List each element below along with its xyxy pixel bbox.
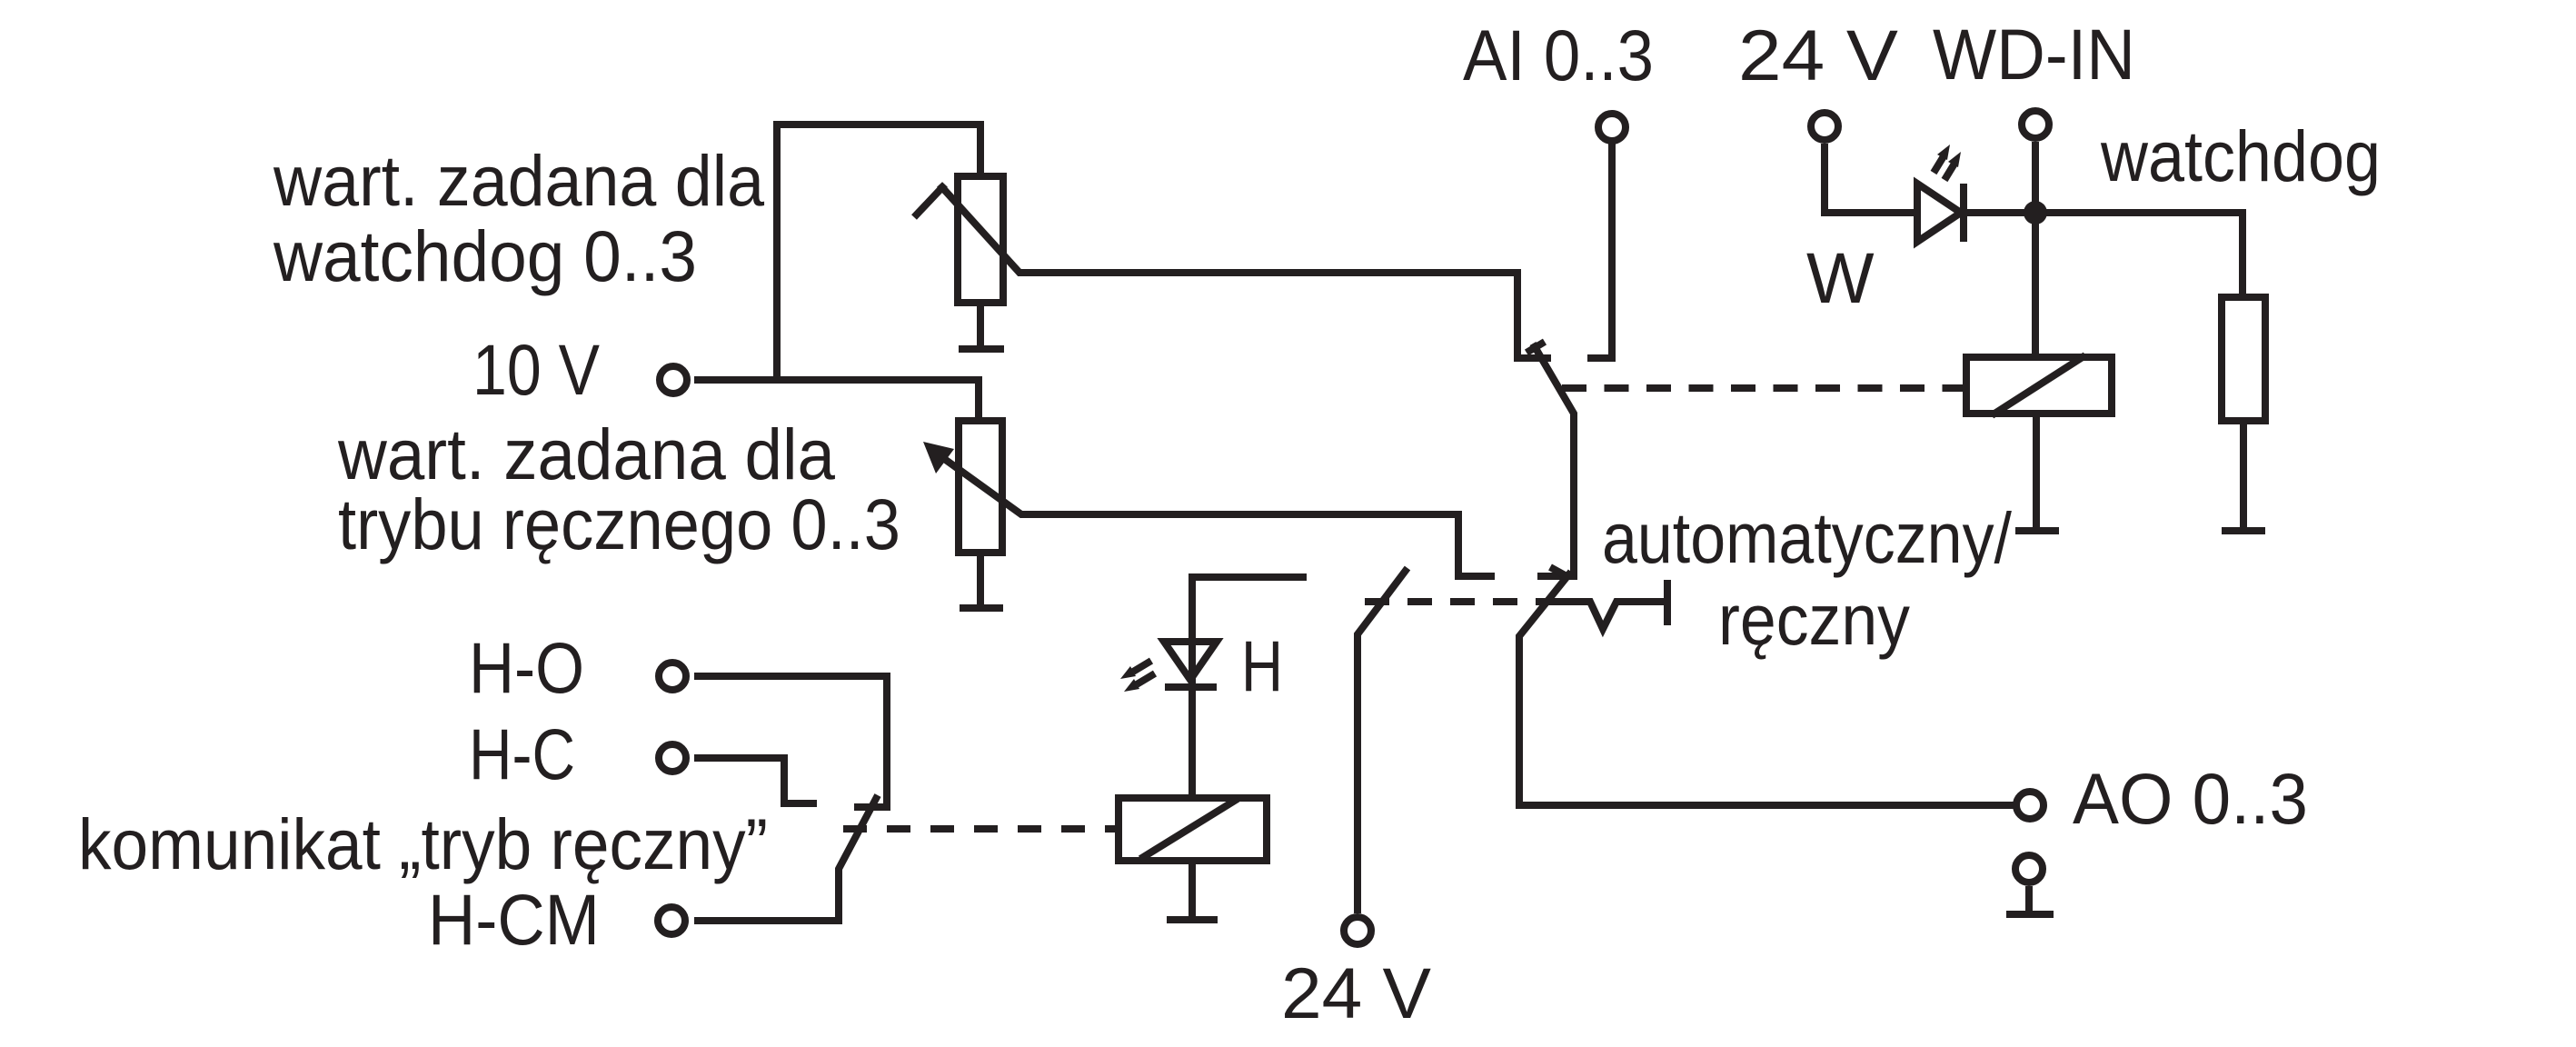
svg-text:komunikat „tryb ręczny”: komunikat „tryb ręczny” <box>78 803 768 884</box>
svg-text:AO 0..3: AO 0..3 <box>2073 758 2308 839</box>
svg-text:W: W <box>1806 237 1875 318</box>
svg-text:automatyczny/: automatyczny/ <box>1602 497 2012 578</box>
svg-text:wart. zadana dla: wart. zadana dla <box>337 414 835 494</box>
svg-text:H-O: H-O <box>469 627 584 708</box>
svg-text:24 V: 24 V <box>1738 15 1898 95</box>
svg-text:AI 0..3: AI 0..3 <box>1463 15 1654 95</box>
svg-text:H-CM: H-CM <box>428 879 600 960</box>
svg-text:wart. zadana dla: wart. zadana dla <box>273 140 764 221</box>
svg-text:trybu ręcznego 0..3: trybu ręcznego 0..3 <box>338 484 900 564</box>
svg-text:H: H <box>1241 625 1283 706</box>
svg-text:ręczny: ręczny <box>1718 579 1910 660</box>
svg-text:watchdog 0..3: watchdog 0..3 <box>273 215 697 296</box>
svg-text:H-C: H-C <box>469 713 575 794</box>
svg-text:24 V: 24 V <box>1281 952 1431 1033</box>
svg-text:10 V: 10 V <box>472 329 600 410</box>
svg-text:WD-IN: WD-IN <box>1933 14 2135 95</box>
svg-text:watchdog: watchdog <box>2100 115 2381 196</box>
